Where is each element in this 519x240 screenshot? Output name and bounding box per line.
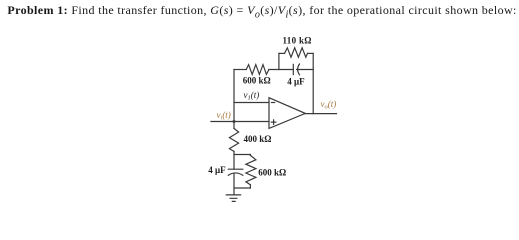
wire split top connector — [234, 154, 250, 156]
wire output line — [305, 113, 337, 115]
svg-text:600 kΩ: 600 kΩ — [258, 167, 286, 177]
wire right vertical (to output node) — [312, 53, 314, 113]
problem statement title — [7, 3, 516, 20]
svg-text:4 μF: 4 μF — [208, 165, 226, 175]
wire bump top left stub — [279, 52, 285, 54]
wire feedback line to capacitor — [269, 69, 293, 71]
wire left vertical (feedback node to input junction) — [233, 70, 235, 122]
wire bump left vertical — [278, 53, 280, 69]
svg-text:vi(t): vi(t) — [217, 110, 231, 122]
wire 600k branch top stub — [249, 154, 251, 157]
op-amp plus sign — [271, 120, 275, 124]
resistor R 400k — [229, 128, 238, 151]
svg-text:4 μF: 4 μF — [287, 77, 305, 87]
op-amp U1 triangle — [269, 98, 305, 129]
capacitor C 4uF bottom — [228, 169, 243, 175]
wire feedback line left segment — [234, 69, 246, 71]
op-amp minus sign — [272, 102, 275, 104]
wire 400k to split — [233, 151, 235, 169]
resistor R 600k bottom — [246, 155, 256, 184]
wire split bottom connector — [234, 187, 250, 189]
wire cap bottom to ground — [233, 174, 235, 195]
resistor R 110k — [285, 48, 308, 57]
svg-text:600 kΩ: 600 kΩ — [243, 76, 271, 86]
wire inverting input (v1 line) — [234, 102, 269, 104]
ground symbol — [226, 195, 240, 202]
svg-text:v1(t): v1(t) — [244, 90, 260, 102]
capacitor C 4uF feedback — [293, 64, 313, 75]
resistor R 600k feedback — [246, 65, 269, 75]
svg-text:400 kΩ: 400 kΩ — [244, 134, 272, 144]
wire 600k branch bottom stub — [249, 185, 251, 188]
wire input line vi — [211, 121, 269, 123]
node junction dot — [233, 120, 236, 123]
wire junction to 400k — [233, 122, 235, 129]
svg-text:vo(t): vo(t) — [321, 99, 337, 111]
wire bump top right stub — [308, 52, 314, 54]
svg-text:110 kΩ: 110 kΩ — [283, 36, 312, 46]
